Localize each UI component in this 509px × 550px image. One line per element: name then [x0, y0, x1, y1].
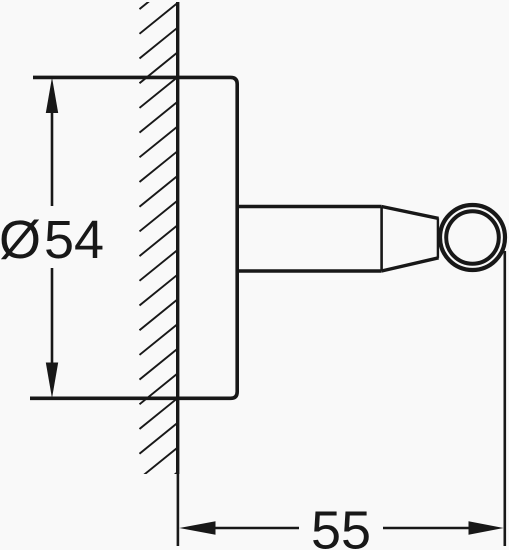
- wall hatching: [140, 0, 178, 503]
- taper top edge: [382, 207, 439, 219]
- extension line wall face: [177, 474, 180, 546]
- taper bottom edge: [382, 258, 439, 271]
- dimension line horizontal (55): [215, 527, 300, 530]
- arrow down: [46, 363, 58, 399]
- svg-text:55: 55: [311, 501, 371, 550]
- taper-ring chord: [437, 218, 439, 258]
- arrow right: [469, 521, 504, 534]
- svg-text:54: 54: [44, 210, 104, 270]
- wall face line: [176, 2, 179, 474]
- arm joint line: [380, 207, 383, 272]
- dimension line vertical (diameter 54): [51, 111, 54, 206]
- arm bottom edge: [237, 269, 381, 273]
- arrow up: [46, 77, 58, 113]
- arrow left: [179, 521, 215, 534]
- mounting plate outline with top/bottom extension lines: [30, 77, 237, 398]
- ring outer circle: [440, 205, 505, 270]
- svg-text:Ø: Ø: [0, 210, 41, 270]
- extension line hook outer edge: [503, 251, 506, 546]
- ring inner circle: [446, 211, 499, 264]
- arm top edge: [237, 205, 381, 209]
